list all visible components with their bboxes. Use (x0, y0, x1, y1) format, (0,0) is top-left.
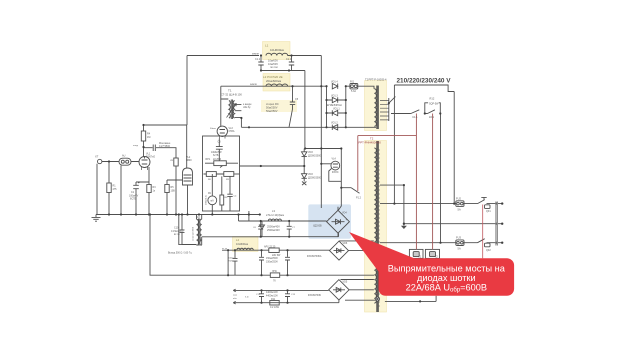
svg-text:10Н600мк: 10Н600мк (270, 48, 285, 52)
diode VD3b (302, 174, 307, 179)
svg-text:C1.2: C1.2 (286, 58, 292, 61)
svg-text:VD1.4: VD1.4 (331, 81, 338, 84)
ground symbol main (92, 215, 101, 222)
svg-text:зеленый 3000: зеленый 3000 (199, 227, 202, 242)
svg-text:22А/68А Uобр=600В: 22А/68А Uобр=600В (406, 283, 487, 294)
red callout arrow (349, 232, 416, 272)
wire P1.2 switch feed (341, 188, 359, 194)
T2 tap wire y242.7 through fuse FU3 (380, 242, 502, 244)
junction dots ground bus (108, 213, 110, 215)
svg-text:АU: АU (122, 155, 126, 158)
wire rail right of VL4 (339, 149, 342, 211)
svg-text:2500м/40V: 2500м/40V (267, 225, 280, 229)
svg-text:Т1: Т1 (228, 89, 232, 93)
wire VL2 rail from node row (186, 125, 188, 168)
wire bridge3 bottom tap with marker (345, 299, 380, 301)
svg-text:ФХС80НОБА: ФХС80НОБА (307, 255, 322, 258)
highlight: yellow band over T2 primary winding (365, 81, 387, 131)
svg-text:ХТ: ХТ (95, 155, 99, 159)
output transformer windings (197, 219, 199, 245)
wire AU down leg (120, 166, 122, 215)
svg-text:вс пл: вс пл (174, 233, 180, 236)
junction dots top (260, 54, 262, 56)
svg-text:200м/4 2к: 200м/4 2к (206, 195, 208, 205)
svg-text:22.25М: 22.25М (213, 158, 221, 161)
capacitor C2 (153, 145, 155, 152)
inductor L1 (266, 53, 288, 55)
svg-text:50м/250V: 50м/250V (266, 109, 278, 113)
wire VL1 cathode chain R3 (148, 167, 150, 215)
highlight: blue box around bridge VD4 (308, 204, 351, 238)
bridge rectifier VD5 (329, 280, 349, 300)
connector AU (119, 158, 131, 165)
red wire from breaker QF1 down to red box (482, 205, 484, 259)
wire C1 branch (136, 182, 149, 215)
capacitor C7 plates (287, 226, 292, 229)
label T2 maroon (359, 137, 382, 145)
resistor R6 (204, 173, 224, 175)
K2.1 switch blade (428, 110, 435, 114)
svg-text:диодах шотки: диодах шотки (417, 273, 476, 283)
wire C3box drop to L3 row (248, 211, 250, 221)
transformer T2 secondary winding (374, 148, 376, 303)
svg-text:VD5: VD5 (343, 280, 348, 283)
transformer T1 windings (229, 101, 230, 119)
wire input terminal to tube VL1 (102, 161, 139, 163)
wire T1 top / L2 row (221, 85, 327, 87)
T2 tap wire y223.7 (404, 223, 503, 225)
highlight: yellow band over T2 secondary windings (365, 141, 387, 313)
svg-text:Д2000/2000: Д2000/2000 (308, 154, 322, 157)
wire input terminal down to ground bus (96, 164, 98, 215)
connector bars right (496, 202, 498, 246)
capacitor C5 stub and diagonal into y127 wire (289, 86, 293, 127)
inductor L3 (268, 219, 281, 221)
wire cap 100u legs x235 (234, 250, 236, 275)
wire top-left from corner to L1 (187, 55, 259, 57)
svg-text:2.5Н 2.10(3)мм: 2.5Н 2.10(3)мм (266, 213, 284, 217)
maroon wire horizontal to K1 column (358, 135, 417, 137)
wire bottom row y302.7 (233, 300, 339, 303)
wire bridge3 right feed (349, 289, 374, 291)
FU2 switch blade (478, 197, 487, 203)
svg-text:земля: земля (250, 83, 257, 86)
right rail x454 down to FU2 wire (453, 92, 455, 204)
wire bus drop x150 down and right to R10 row (150, 215, 374, 276)
svg-text:обм 6у: обм 6у (243, 106, 251, 109)
svg-text:R12: R12 (430, 97, 435, 101)
wire T1 taps (235, 104, 242, 127)
tube VL4 (331, 161, 340, 170)
svg-text:RP1: RP1 (206, 158, 211, 161)
wire L3 cap right leg (288, 221, 290, 237)
svg-text:земля: земля (252, 53, 259, 56)
svg-text:6В00: 6В00 (186, 159, 192, 162)
svg-text:475: 475 (113, 188, 118, 191)
svg-text:SQР-5W: SQР-5W (429, 102, 439, 105)
wire rail x321 from L1 row down (320, 56, 322, 209)
inductor L4 (237, 248, 254, 250)
resistor R1 (107, 183, 111, 193)
fuse FU3 (456, 240, 464, 246)
svg-text:0.27*4500: 0.27*4500 (159, 145, 171, 148)
selector left rail down to FU2 wire (393, 85, 395, 204)
feedback diode (260, 225, 265, 229)
T2 secondary winding ticks (378, 150, 380, 306)
fuse FU2 (456, 201, 464, 207)
R12 loop (425, 103, 441, 114)
capacitor C3 (216, 139, 223, 161)
wire L4 cap legs x261 (261, 250, 263, 275)
capacitor C5 plates (290, 102, 295, 105)
highlight: yellow box around L4 (233, 237, 259, 252)
selector box top (394, 85, 454, 92)
fuse F01 (350, 84, 358, 89)
tube VL2 (183, 168, 193, 185)
junction dots right (403, 184, 405, 186)
wire VL2 cathode to bus (187, 185, 189, 215)
svg-text:R11: R11 (271, 298, 276, 301)
terminal XT (98, 159, 102, 163)
tube VL1 (139, 157, 150, 168)
resistor R8 (221, 176, 223, 211)
svg-text:зеленый 3000: зеленый 3000 (192, 226, 195, 241)
wire R4 chain to VL1 (143, 125, 145, 157)
svg-text:анод: анод (133, 145, 139, 147)
diode VD1.1 (327, 110, 346, 115)
wire L3 bottom rail to bridge1 bottom (261, 233, 339, 237)
wire VD3 string vertical (303, 149, 305, 182)
svg-text:50мкс: 50мкс (210, 128, 217, 130)
ground bus (96, 214, 260, 216)
resistor R9 (234, 173, 240, 175)
tube VL1 pins (142, 166, 148, 170)
svg-text:6С7Б: 6С7Б (130, 198, 136, 201)
highlight: yellow box around L2 (263, 74, 290, 92)
wire OT secondary to feedback (202, 221, 262, 237)
wire bridge2 right feed (349, 250, 374, 252)
wire R5 legs (167, 180, 183, 215)
potentiometer RP1 (205, 162, 238, 164)
T2 tap selector diagonal (389, 97, 396, 104)
wire vertical x305 down to VD3 row (304, 71, 306, 149)
wire L1 filter cap left leg (260, 56, 262, 71)
wire PA feed (211, 174, 213, 215)
svg-text:VD1.2: VD1.2 (331, 121, 338, 124)
svg-text:250V: 250V (228, 260, 234, 262)
sub-circuit box C3 (203, 136, 240, 211)
capacitor C8 plates (259, 257, 264, 260)
VD3 bottom marker (302, 182, 306, 186)
wire VD1.4 to fuse F01 (346, 86, 374, 89)
K1.1 switch blade (411, 110, 419, 114)
wire below red box (385, 296, 436, 302)
svg-text:6SN7пО: 6SN7пО (146, 156, 155, 159)
resistor R4 (141, 131, 145, 141)
T2 primary taps (380, 100, 389, 120)
wire VD1 left rail (326, 86, 328, 127)
svg-text:0.2 10W: 0.2 10W (270, 306, 280, 309)
diode VD1.3 (327, 97, 346, 102)
wire VL4 heater loop (329, 169, 342, 182)
potentiometer RP2 (269, 248, 279, 253)
T2 tap wire y203.6 through fuse FU2 (380, 203, 502, 205)
wire bottom row y290.8 (233, 289, 328, 291)
twisted marker on T2 bottom tap (375, 297, 379, 301)
wire L4 cap legs x287 (287, 250, 289, 275)
resistor R10 (270, 273, 279, 278)
svg-text:Выпрямительные мосты на: Выпрямительные мосты на (388, 263, 506, 273)
wire L4 row left drop (227, 250, 229, 275)
relay K1 box (409, 249, 423, 258)
wire from R4 node to x187 (144, 124, 188, 126)
svg-text:5.4г: 5.4г (245, 297, 249, 299)
wire C2 branch (144, 148, 177, 158)
wire vertical x187 down to node row (186, 56, 188, 126)
wire VD3 row from C3 box (240, 165, 306, 167)
diode VD1.4 (332, 84, 337, 89)
FU3 switch blade (478, 239, 485, 243)
capacitor C1.2 plates (258, 62, 263, 65)
capacitor C4 (227, 176, 232, 211)
svg-text:F01: F01 (350, 81, 355, 84)
svg-text:10В: 10В (171, 190, 176, 193)
wire long horizontal y127 to T2 primary bottom (241, 126, 376, 128)
relay K2 box (425, 249, 439, 258)
svg-text:РРТ-РНН400/400: РРТ-РНН400/400 (359, 141, 382, 145)
transformer T2 secondary core (377, 141, 378, 312)
red callout text (388, 263, 506, 293)
svg-text:РА: РА (208, 192, 211, 195)
wire L3 cap left leg (260, 221, 262, 237)
svg-text:К1.1: К1.1 (413, 115, 419, 119)
wire VD3 top row (305, 148, 341, 150)
breaker QF1 box (485, 205, 491, 209)
red callout box (379, 258, 515, 296)
ground symbol right (403, 224, 405, 226)
svg-text:20мк600мк: 20мк600мк (266, 79, 282, 83)
svg-text:5.3А: 5.3А (351, 90, 356, 93)
capacitor C11 plates (259, 294, 264, 297)
wire L1 filter bottom rail (261, 70, 305, 72)
bridge rectifier VD4 (327, 207, 350, 237)
wire black x441 down to FU3 row (440, 114, 442, 243)
svg-text:VD1.1: VD1.1 (333, 107, 340, 110)
svg-text:10Н600мк: 10Н600мк (236, 242, 249, 246)
wire output transformer left leg (179, 215, 196, 245)
resistor R5 (165, 185, 169, 193)
wire L1 filter cap right leg (291, 56, 293, 71)
svg-text:L1: L1 (265, 44, 269, 48)
svg-text:VL4: VL4 (332, 158, 337, 161)
diode VD1.2 (332, 125, 337, 130)
wire bottom caps legs (262, 290, 288, 302)
svg-text:5А: 5А (458, 207, 461, 211)
bridge rectifier VD6 (330, 241, 349, 260)
maroon wire K1.1 down to relay K1 (415, 114, 417, 250)
resistor R3 (147, 185, 151, 193)
svg-text:Р1.2: Р1.2 (356, 197, 362, 200)
svg-text:210/220/230/240 V: 210/220/230/240 V (397, 78, 452, 85)
wire L3 row to bridge1 (239, 215, 327, 222)
svg-text:5А: 5А (458, 247, 461, 251)
wire VL4 grid from rail (321, 163, 331, 165)
highlight: yellow box around L1 (263, 42, 291, 60)
svg-text:от тр: от тр (222, 248, 228, 250)
maroon wire K2.1 down to relay K2 (432, 114, 434, 250)
svg-text:FU2: FU2 (456, 197, 461, 201)
svg-text:1М: 1М (147, 136, 150, 139)
svg-text:ЛПС: ЛПС (272, 270, 277, 273)
wire L1 right to rail (288, 55, 322, 57)
svg-text:100м/: 100м/ (228, 258, 234, 260)
meter PA (208, 196, 217, 205)
capacitor C10 (180, 215, 185, 245)
diode VD3 (302, 152, 307, 157)
inductor L2 (266, 84, 288, 86)
transformer T2 core (377, 86, 378, 130)
svg-text:150м/250V: 150м/250V (266, 260, 278, 263)
T2 secondary tap y185 (380, 184, 404, 186)
capacitor C13 plates (285, 294, 290, 297)
svg-text:АРУ 22.25: АРУ 22.25 (264, 245, 276, 248)
wire VR down to bus (175, 166, 177, 215)
highlight: yellow tint over C2 RC label (261, 100, 297, 112)
svg-text:по пол: по пол (270, 66, 278, 69)
wire bridge2 top feed (339, 240, 374, 242)
K switch common wire (391, 113, 441, 115)
resistor VR (174, 158, 178, 166)
svg-text:ФХС80НОБ: ФХС80НОБ (308, 294, 321, 297)
svg-text:УД200В: УД200В (313, 225, 322, 228)
svg-text:К2.1: К2.1 (429, 115, 435, 119)
wire R1 legs (108, 162, 110, 215)
wire bridge3 top feed (341, 279, 374, 281)
transformer T1 arrow (227, 104, 237, 118)
svg-text:6П3А: 6П3А (229, 130, 235, 133)
svg-text:QF1: QF1 (486, 210, 491, 213)
capacitor C1 (133, 182, 139, 189)
capacitor C9 plates (285, 257, 290, 260)
transformer T2 primary winding (374, 89, 376, 127)
junction dots bottom (260, 220, 262, 222)
svg-text:6с7Б: 6с7Б (213, 154, 219, 157)
svg-text:VD4: VD4 (342, 212, 347, 215)
svg-text:VD6: VD6 (343, 242, 348, 245)
tube VL3 pins (220, 136, 226, 139)
terminal arrows bottom (233, 289, 235, 304)
capacitor C2.2 plates (289, 62, 294, 65)
junction dots middle (304, 147, 306, 149)
svg-text:СТ-32 Щ14-В 100: СТ-32 Щ14-В 100 (221, 93, 242, 97)
svg-text:ФХХС: ФХХС (332, 171, 339, 174)
svg-text:Выход 500 Ω / 160 Гц: Выход 500 Ω / 160 Гц (168, 252, 192, 255)
svg-text:VR: VR (170, 160, 173, 162)
svg-text:РРТ-Р-16005-4: РРТ-Р-16005-4 (369, 78, 387, 82)
capacitor C6 plates (258, 226, 263, 229)
capacitor C14 plates (233, 258, 238, 261)
tube VL3 (217, 126, 227, 136)
svg-text:2500м/40V: 2500м/40V (267, 228, 280, 232)
svg-text:Д2000/2000: Д2000/2000 (308, 176, 322, 179)
svg-text:мА: мА (211, 200, 215, 203)
breaker QF2 box (485, 243, 491, 247)
maroon wire from P1.2 area (357, 136, 359, 191)
resistor R11 (270, 301, 279, 306)
svg-text:C1.2: C1.2 (255, 58, 261, 61)
wire VD1 right rail (345, 86, 347, 127)
svg-text:стерео RC: стерео RC (266, 102, 279, 106)
wire x404 down to ground node (403, 185, 405, 224)
svg-text:FU3: FU3 (456, 236, 461, 240)
wire T1 left rail down to VL3 (221, 86, 229, 126)
svg-text:QF2: QF2 (486, 249, 491, 252)
wire L4 row (222, 249, 330, 251)
svg-text:VD1.3: VD1.3 (331, 94, 338, 97)
